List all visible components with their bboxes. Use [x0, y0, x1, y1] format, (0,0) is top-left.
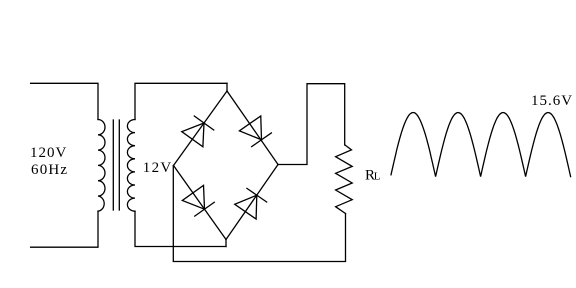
wire bridge edge top-left — [174, 91, 228, 166]
wire bridge edge bottom-right — [226, 165, 278, 240]
diode D1 — [182, 115, 215, 146]
wire bridge edge top-right — [227, 91, 278, 165]
wire primary top — [31, 83, 98, 119]
wire primary bottom — [31, 211, 98, 247]
wire output positive from right node — [278, 84, 345, 165]
wire secondary bottom to bridge — [135, 211, 226, 246]
wire secondary top to bridge — [135, 83, 227, 119]
diode D2 — [239, 116, 272, 147]
diode D4 — [235, 188, 268, 219]
svg-text:120V: 120V — [30, 145, 67, 161]
wire output negative return — [173, 166, 345, 262]
svg-text:L: L — [374, 171, 381, 183]
transformer core — [112, 120, 114, 210]
waveform full-wave rectified output — [391, 113, 571, 177]
svg-text:12V: 12V — [143, 160, 173, 176]
svg-text:15.6V: 15.6V — [531, 93, 573, 109]
diode D3 — [182, 185, 215, 216]
svg-text:60Hz: 60Hz — [31, 162, 68, 178]
inductor secondary winding of transformer T1 — [127, 120, 135, 212]
resistor RL — [336, 145, 353, 214]
node bottom AC input — [225, 240, 227, 247]
wire bridge edge bottom-left — [174, 166, 227, 240]
inductor primary winding of transformer T1 — [98, 120, 105, 212]
node top AC input — [226, 83, 228, 91]
